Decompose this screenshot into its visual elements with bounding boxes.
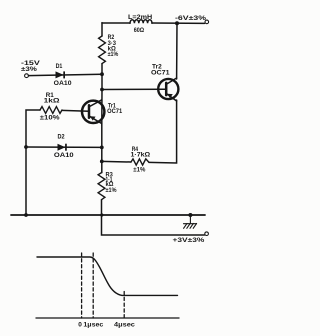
- transistor Tr2 OC71: [158, 78, 178, 101]
- node rail crossing: [100, 213, 103, 216]
- wire dashed marker 4usec: [123, 292, 125, 319]
- svg-text:+3V±3%: +3V±3%: [173, 237, 205, 244]
- wire left vertical line: [26, 110, 40, 215]
- node junction top rail: [175, 21, 179, 25]
- node chassis junction: [188, 213, 192, 217]
- wire -15V to node A: [29, 74, 103, 75]
- wire right vertical collector line: [176, 23, 178, 79]
- svg-text:-6V±3%: -6V±3%: [175, 15, 206, 22]
- svg-text:1kΩ: 1kΩ: [44, 98, 61, 105]
- wire R3 bottom through rail to +3V line: [102, 200, 205, 235]
- terminal -6V: [205, 20, 209, 24]
- svg-text:1μsec: 1μsec: [83, 322, 103, 329]
- wire D2 line: [26, 146, 102, 148]
- svg-text:OA10: OA10: [54, 152, 74, 159]
- svg-text:L=2mH: L=2mH: [128, 14, 152, 21]
- svg-text:±3%: ±3%: [21, 66, 37, 73]
- svg-text:OC71: OC71: [107, 108, 122, 115]
- node D2 left junction: [24, 145, 28, 149]
- diode D1 OA10: [56, 71, 66, 78]
- wire baseline axis: [36, 317, 179, 319]
- svg-text:OC71: OC71: [151, 69, 170, 76]
- node D2 right junction: [100, 146, 104, 150]
- resistor R1 zigzag: [40, 107, 62, 114]
- inductor L 2mH 60ohm coil: [130, 20, 152, 24]
- wire top rail right segment: [152, 22, 205, 24]
- diode D2 OA10: [58, 144, 67, 151]
- terminal +3V: [205, 232, 209, 236]
- svg-text:D2: D2: [58, 134, 65, 141]
- resistor R4 zigzag: [131, 159, 149, 165]
- svg-text:±1%: ±1%: [108, 51, 119, 58]
- terminal -15V: [25, 74, 29, 78]
- wire R1 to Tr1 base: [62, 109, 89, 112]
- node D1 junction: [100, 72, 104, 76]
- svg-text:4μsec: 4μsec: [114, 322, 135, 329]
- svg-text:OA10: OA10: [54, 80, 72, 87]
- wire dashed marker 0: [81, 253, 83, 318]
- wire Tr2 base line: [102, 88, 166, 90]
- wire R4 left wire: [102, 160, 131, 163]
- svg-text:±10%: ±10%: [40, 115, 60, 122]
- wire bottom rail: [11, 214, 205, 216]
- wire signal trace: [37, 257, 178, 295]
- wire dashed marker 1usec: [92, 253, 94, 318]
- wire vertical through Tr1: [101, 90, 103, 126]
- node Tr2 base branch: [100, 88, 104, 92]
- svg-text:0: 0: [78, 322, 82, 329]
- ground chassis symbol: [184, 215, 197, 228]
- node R4 left junction: [100, 160, 104, 164]
- transistor Tr1 OC71: [82, 100, 104, 124]
- wire R2 bottom to D1 junction: [101, 64, 103, 90]
- resistor R2 zigzag: [99, 36, 106, 64]
- wire top rail left segment: [102, 22, 130, 24]
- svg-text:1·7kΩ: 1·7kΩ: [131, 152, 151, 159]
- svg-text:±1%: ±1%: [106, 187, 117, 194]
- node left line to rail: [24, 213, 28, 217]
- svg-text:D1: D1: [56, 63, 63, 70]
- wire vertical Tr1 emitter down to rail and +3V corner: [101, 125, 103, 173]
- resistor R3 zigzag: [98, 173, 105, 200]
- wire main vertical node line x=102: [101, 23, 103, 36]
- svg-text:±1%: ±1%: [133, 167, 145, 174]
- svg-text:60Ω: 60Ω: [134, 27, 145, 34]
- wire right vertical emitter to R4 corner: [149, 100, 177, 163]
